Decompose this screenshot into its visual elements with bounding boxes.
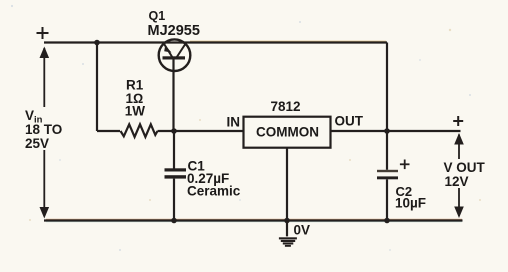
svg-text:12V: 12V [445, 174, 469, 189]
C2 polarity plus [400, 160, 410, 170]
svg-text:7812: 7812 [271, 99, 301, 114]
svg-text:IN: IN [227, 115, 241, 130]
node junction C2 / bottom rail [384, 218, 390, 224]
svg-text:Q1: Q1 [149, 9, 166, 23]
svg-text:0V: 0V [294, 223, 311, 238]
wire right drop from top rail to OUT line [386, 43, 388, 132]
net label V OUT 12V [443, 159, 486, 189]
node junction R1 / Q1 base / C1 [171, 128, 177, 134]
svg-text:1W: 1W [125, 104, 146, 119]
transistor Q1 [159, 39, 191, 71]
wire R1 left lead [97, 130, 120, 132]
svg-text:18 TO: 18 TO [25, 122, 62, 137]
regulator U1 7812 body (COMMON box) [244, 117, 331, 148]
output polarity plus [453, 116, 463, 126]
node junction top rail / left drop [94, 40, 100, 46]
wire bottom rail (0V) [44, 219, 463, 221]
svg-text:10µF: 10µF [395, 196, 426, 211]
ground [279, 237, 297, 246]
svg-text:25V: 25V [25, 136, 49, 151]
Vin dimension arrow [40, 47, 50, 219]
node junction C1 / bottom rail [171, 218, 177, 224]
capacitor C1 [165, 131, 187, 221]
wire COMMON drop to ground [286, 148, 288, 237]
net label Vin 18 TO 25V [23, 107, 62, 151]
node junction common drop / bottom rail [284, 218, 290, 224]
svg-text:Ceramic: Ceramic [187, 184, 241, 199]
input polarity plus [37, 27, 49, 39]
wire R1 to regulator IN [158, 130, 244, 132]
capacitor C2 [377, 131, 398, 221]
svg-text:V OUT: V OUT [444, 160, 486, 175]
V OUT dimension arrow [454, 133, 464, 218]
wire Q1 base lead down to junction [172, 59, 174, 131]
wire left drop from top rail to R1 [96, 43, 98, 132]
svg-text:MJ2955: MJ2955 [148, 23, 200, 39]
svg-text:OUT: OUT [335, 114, 364, 129]
svg-text:COMMON: COMMON [256, 125, 319, 140]
wire OUT lead to output [331, 130, 461, 132]
resistor R1 [121, 124, 158, 137]
wire top rail [44, 41, 387, 43]
node junction OUT wire / C2 branch [384, 128, 390, 134]
